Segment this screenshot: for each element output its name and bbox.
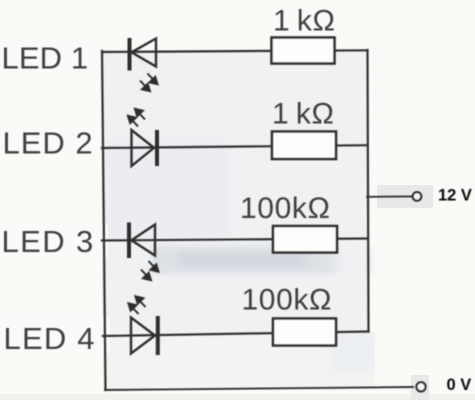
LED D1 — [130, 38, 157, 71]
bottom edge strip — [0, 394, 475, 400]
svg-text:100kΩ: 100kΩ — [240, 192, 330, 225]
svg-text:12 V: 12 V — [438, 187, 472, 205]
resistor R3 100k — [273, 226, 337, 253]
0V terminal gray band — [411, 375, 429, 400]
wire row 1 — [102, 50, 368, 52]
label highlight band LED1 — [0, 43, 98, 72]
bottom wire — [105, 387, 413, 390]
resistor R2 1k — [272, 132, 336, 160]
right rail — [368, 50, 369, 332]
wire row 4 — [103, 332, 369, 337]
svg-text:LED 1: LED 1 — [2, 41, 89, 76]
LED D1 light arrows — [140, 74, 158, 92]
terminal 12V circle — [413, 192, 422, 201]
svg-text:LED 3: LED 3 — [2, 224, 95, 259]
resistor R4 100k — [273, 319, 336, 346]
12V terminal gray band — [377, 185, 433, 208]
scan shading patches — [105, 140, 373, 372]
12V tap wire — [367, 195, 412, 197]
LED D2 light arrows — [128, 109, 145, 127]
svg-text:LED 4: LED 4 — [4, 321, 96, 356]
wire row 3 — [102, 239, 368, 241]
LED D4 light arrows — [128, 296, 145, 314]
LED D3 — [129, 223, 155, 259]
label highlight band LED2 — [0, 128, 100, 157]
resistor R1 1k — [272, 38, 335, 64]
inner circuit tint — [102, 50, 368, 334]
wire row 2 — [102, 145, 368, 148]
svg-text:100kΩ: 100kΩ — [242, 283, 332, 316]
label highlight band LED3 — [0, 224, 108, 257]
svg-text:LED 2: LED 2 — [3, 126, 94, 161]
label highlight band LED4 — [0, 317, 110, 353]
LED D2 — [132, 130, 158, 166]
LED D3 light arrows — [141, 261, 159, 280]
svg-text:0 V: 0 V — [447, 376, 472, 394]
svg-text:1 kΩ: 1 kΩ — [273, 4, 336, 37]
LED D4 — [131, 316, 158, 355]
bleed-through smudge — [152, 200, 372, 330]
left rail — [102, 51, 106, 390]
terminal 0V circle — [416, 382, 425, 391]
svg-text:1 kΩ: 1 kΩ — [272, 98, 335, 131]
